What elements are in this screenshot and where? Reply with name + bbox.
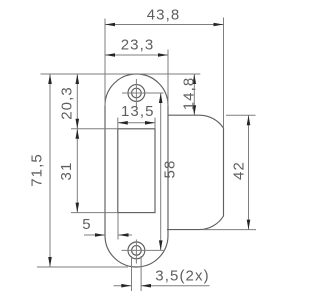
lip (right tab) xyxy=(167,115,224,229)
dim line 42 xyxy=(248,115,250,229)
58 arrows xyxy=(159,93,163,103)
svg-text:31: 31 xyxy=(58,162,75,181)
svg-text:3,5(2x): 3,5(2x) xyxy=(155,268,209,285)
dim line 3,5 right part (leader under text) xyxy=(141,285,210,287)
extension lines for 3,5 slot xyxy=(131,256,133,291)
14,8 arrows xyxy=(193,74,197,84)
top hole centerline vertical xyxy=(135,79,137,108)
extension line y74 (plate top) xyxy=(41,73,201,75)
bottom hole centerline vertical xyxy=(135,240,137,264)
svg-text:5: 5 xyxy=(82,216,91,233)
extension line left x105 (top) xyxy=(104,19,106,107)
svg-text:58: 58 xyxy=(161,160,178,179)
dim line 14,8 xyxy=(193,74,195,115)
5 arrows (outside) xyxy=(95,233,105,237)
svg-text:20,3: 20,3 xyxy=(58,86,75,120)
screw hole bottom inner xyxy=(132,246,142,256)
svg-text:13,5: 13,5 xyxy=(121,103,155,120)
dim line 3,5 left part xyxy=(114,285,132,287)
arrowheads xyxy=(48,23,250,288)
dim line 58 xyxy=(160,93,162,250)
top hole centerline horizontal xyxy=(122,92,164,94)
dim line 71,5 xyxy=(49,74,51,267)
latch cutout xyxy=(118,129,155,213)
dimension texts xyxy=(28,7,247,285)
dim line 13,5 xyxy=(118,122,155,124)
svg-text:14,8: 14,8 xyxy=(180,77,197,111)
extension line x168 for 23,3 xyxy=(167,50,169,107)
svg-text:43,8: 43,8 xyxy=(147,7,181,24)
13,5 arrows xyxy=(118,121,128,125)
dim line 5 left part xyxy=(84,234,105,236)
screw hole bottom outer xyxy=(128,242,145,259)
screw hole top outer xyxy=(128,85,145,102)
bottom hole centerline horizontal xyxy=(122,249,164,251)
71,5 arrows xyxy=(48,74,52,84)
extension lines cutout left y128.8 / y212.6 xyxy=(71,128,118,130)
dim line 5 right part xyxy=(119,234,133,236)
dim line 43,8 xyxy=(105,24,224,26)
extension line x118.5 for 5 xyxy=(117,213,119,240)
dim line 23,3 xyxy=(105,54,168,56)
svg-text:23,3: 23,3 xyxy=(121,37,155,54)
screw hole top inner xyxy=(132,88,142,98)
23,3 arrows xyxy=(105,53,115,57)
svg-text:42: 42 xyxy=(230,161,247,180)
dim line 31 xyxy=(76,129,78,213)
3,5 arrows (outside) xyxy=(121,284,131,288)
31 arrows xyxy=(76,129,80,139)
43,8 arrows xyxy=(105,23,115,27)
20,3 arrows xyxy=(76,74,80,84)
extension line right x223.5 for 43,8 xyxy=(223,18,225,129)
42 arrows xyxy=(247,115,251,125)
svg-text:71,5: 71,5 xyxy=(28,153,45,187)
plate outline xyxy=(105,74,168,267)
dim line 20,3 xyxy=(76,74,78,129)
extension line y267 (plate bottom) xyxy=(37,266,128,268)
extension lines for 42 xyxy=(226,114,256,116)
extension lines for 13,5 xyxy=(117,118,119,129)
